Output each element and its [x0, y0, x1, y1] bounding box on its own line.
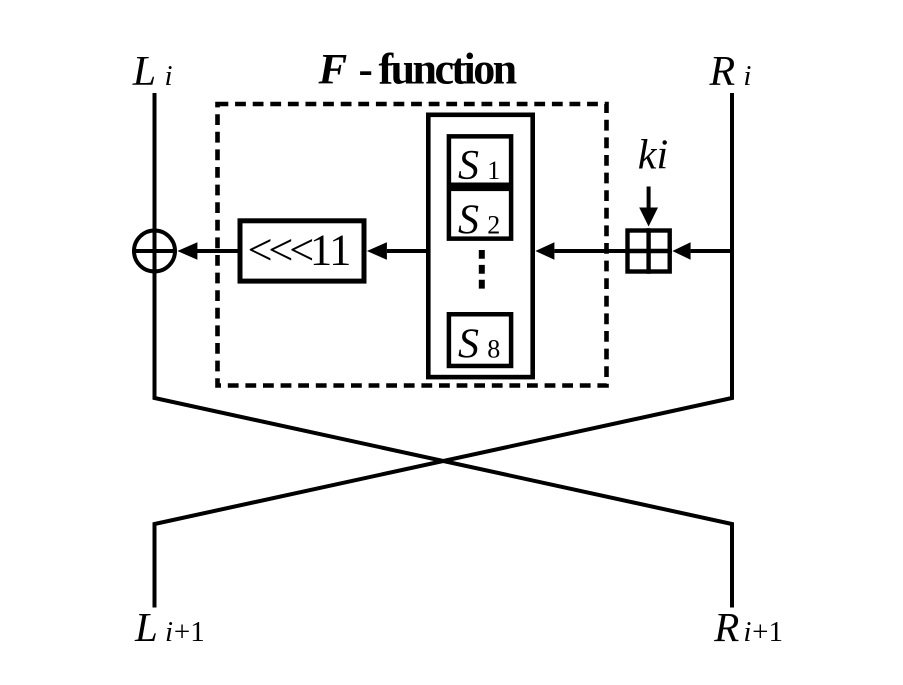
wire R_i vertical then diagonal to L_{i+1} [155, 93, 733, 608]
wire key-mix box to S-box column with arrowhead [535, 242, 626, 260]
S1 box [449, 136, 511, 189]
svg-text:function: function [379, 45, 517, 94]
node L_i label [132, 49, 173, 95]
wire S-box column to rot-box with arrowhead [367, 242, 427, 260]
node R_i label [709, 49, 752, 95]
svg-text:i: i [165, 616, 173, 648]
key-mix box (boxed plus) [625, 228, 672, 273]
svg-text:8: 8 [487, 335, 500, 364]
node L_{i+1} label [134, 604, 205, 650]
svg-text:i: i [743, 616, 751, 648]
svg-text:L: L [132, 49, 156, 95]
rotate-left-11 box [240, 221, 364, 281]
wire rot-box to XOR with arrowhead [177, 242, 238, 260]
key input arrow into key-mix box [639, 187, 658, 227]
wire L_i vertical then diagonal to R_{i+1} [155, 93, 733, 608]
svg-text:i: i [743, 60, 751, 92]
svg-text:+1: +1 [174, 616, 205, 648]
svg-text:R: R [713, 604, 739, 650]
svg-text:<<<11: <<<11 [248, 225, 350, 275]
svg-text:+1: +1 [752, 616, 783, 648]
S-box column outer rectangle [428, 115, 532, 377]
svg-text:S: S [458, 143, 479, 189]
node R_{i+1} label [713, 604, 783, 650]
svg-text:-: - [359, 47, 373, 94]
S2 box [449, 189, 511, 244]
wire R line to key-mix box with arrowhead [672, 242, 732, 260]
svg-text:ki: ki [638, 132, 668, 178]
svg-text:S: S [458, 322, 479, 368]
S8 box [449, 314, 511, 367]
svg-text:R: R [709, 49, 736, 95]
svg-text:S: S [458, 198, 479, 244]
svg-text:1: 1 [487, 156, 500, 185]
svg-text:L: L [134, 604, 158, 650]
XOR node (circle-plus) on L line [134, 231, 175, 272]
svg-text:F: F [318, 47, 348, 94]
svg-text:i: i [165, 60, 173, 92]
svg-text:2: 2 [487, 211, 500, 240]
dashed F-function boundary box [218, 104, 607, 386]
F - function title [318, 45, 517, 94]
vertical ellipsis dots between S2 and S8 [479, 250, 485, 289]
